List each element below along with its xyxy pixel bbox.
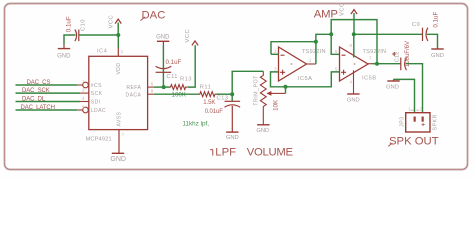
VCC symbol AMP: [340, 2, 358, 34]
svg-text:#CS: #CS: [91, 83, 102, 89]
pin 6 REFA stub: [148, 86, 154, 88]
svg-text:10K: 10K: [273, 99, 280, 111]
svg-text:GND: GND: [431, 53, 444, 59]
node D output junction: [375, 62, 379, 66]
node REFA junction: [162, 85, 166, 89]
wire wiper node to IC5A +in: [271, 72, 286, 87]
wire DAC_CS: [16, 84, 78, 86]
IC5B V+ pin 8 stub: [353, 34, 355, 57]
svg-text:VCC: VCC: [340, 2, 346, 16]
ground under IC5B: [347, 94, 360, 104]
pin 3 stub: [80, 92, 89, 94]
svg-text:C12: C12: [395, 51, 401, 62]
VCC symbol at R13: [185, 29, 198, 46]
wire C13 to GND: [231, 106, 233, 132]
VCC symbol at IC4: [108, 15, 121, 35]
pin 8 DACA stub: [148, 93, 154, 95]
svg-text:0.1uF: 0.1uF: [166, 59, 182, 66]
svg-text:VCC: VCC: [185, 29, 191, 43]
svg-text:SPK OUT: SPK OUT: [389, 135, 439, 147]
svg-text:GND: GND: [226, 135, 239, 141]
node LPF junction: [230, 92, 234, 96]
svg-text:VOLUME: VOLUME: [247, 147, 294, 159]
svg-text:GND: GND: [256, 128, 269, 134]
trimpot wiper arrow: [266, 91, 285, 96]
IC4 box MCP4921: [89, 56, 148, 129]
svg-text:LDAC: LDAC: [91, 108, 106, 114]
ground under C9: [431, 49, 444, 59]
wire node B to node A: [316, 34, 331, 41]
wire node A to IC5B -in: [331, 34, 339, 54]
wire C10 to VCC node: [79, 34, 119, 36]
wire IC5A feedback: [271, 42, 316, 64]
wire DAC_DL: [16, 101, 81, 103]
wire C9 to GND: [427, 34, 438, 49]
wire DAC_LATCH: [16, 109, 78, 111]
svg-text:TS922IN: TS922IN: [363, 49, 387, 55]
wire C12 to JP3 pin2: [406, 64, 423, 113]
pin 1 VDD stub: [117, 48, 119, 56]
wire wiper to node: [285, 87, 287, 94]
IC5A out stub: [307, 63, 316, 65]
IC5B V- pin 4 stub to GND: [353, 70, 355, 94]
wire R13 to VCC: [188, 45, 195, 87]
svg-text:VDD: VDD: [116, 63, 122, 75]
wire IC5B out to C12: [377, 63, 401, 65]
wire wiper node to IC5B +in: [286, 72, 340, 87]
capacitor C9: [423, 28, 428, 41]
node A: [329, 32, 333, 36]
ground at JP3: [386, 79, 400, 90]
ground under pot: [256, 125, 269, 134]
ground under IC4: [110, 153, 126, 163]
JP3 pin numbers: [408, 107, 422, 112]
svg-text:GND: GND: [57, 53, 71, 59]
op-amp IC5A: [279, 47, 307, 81]
svg-text:C11: C11: [167, 74, 178, 80]
capacitor C11: [156, 66, 172, 72]
wire DACA to R11: [154, 93, 199, 95]
section label SPK OUT: [388, 135, 438, 147]
svg-text:AVSS: AVSS: [116, 111, 122, 126]
svg-text:0.1uF: 0.1uF: [66, 16, 73, 32]
IC5A -in stub: [271, 53, 279, 55]
section label DAC: [140, 9, 165, 21]
wire node to C11: [162, 69, 164, 87]
IC5B out stub: [368, 63, 373, 65]
pin 2 bubble: [77, 82, 88, 88]
svg-text:0.1uF: 0.1uF: [433, 12, 440, 28]
svg-text:GND: GND: [386, 85, 399, 91]
IC5B pin numbers: [335, 43, 372, 84]
node junction VCC/C10/VDD: [116, 33, 120, 37]
svg-text:IC5B: IC5B: [362, 75, 377, 81]
pin 5 bubble: [77, 107, 88, 113]
svg-text:C9: C9: [412, 22, 420, 28]
svg-text:REFA: REFA: [126, 85, 141, 91]
ground under C10: [57, 45, 71, 60]
wire node A to IC5B output loop: [331, 20, 377, 64]
svg-text:11khz lpf,: 11khz lpf,: [183, 121, 210, 128]
wire VCC rail to C9: [354, 33, 423, 35]
svg-text:C10: C10: [81, 19, 87, 31]
capacitor C13: [225, 101, 241, 107]
svg-text:0.01uF: 0.01uF: [205, 109, 224, 115]
IC5A pin numbers: [274, 49, 312, 71]
node wiper junction: [284, 85, 288, 89]
wire R11 to node: [217, 93, 233, 95]
capacitor C12 polarized: [392, 52, 406, 70]
wire C10 to GND: [64, 35, 76, 45]
svg-text:TS922IN: TS922IN: [302, 49, 326, 55]
section label LPF: [210, 147, 236, 159]
wire DAC_SCK: [16, 92, 81, 94]
svg-text:MCP4921: MCP4921: [86, 136, 112, 142]
connector JP3: [406, 110, 430, 132]
svg-text:SCK: SCK: [91, 91, 103, 97]
pin 4 stub: [80, 101, 89, 103]
frame border: [5, 4, 468, 170]
wire node to trim pot: [232, 71, 263, 94]
svg-text:R11: R11: [200, 85, 211, 91]
svg-text:TRIM_POT: TRIM_POT: [253, 75, 259, 106]
node C VCC rail: [352, 32, 356, 36]
wire node to C13: [231, 94, 233, 101]
svg-text:VCC: VCC: [108, 15, 114, 29]
node B feedback: [314, 40, 318, 44]
pin 7 AVSS stub: [118, 130, 120, 154]
svg-text:DACA: DACA: [126, 92, 142, 98]
resistor R11: [198, 92, 217, 97]
ground above C11: [156, 34, 170, 45]
wire JP3 pin1 to GND: [394, 79, 415, 112]
svg-text:GND: GND: [156, 34, 170, 40]
svg-text:C13: C13: [217, 96, 229, 102]
resistor R13: [169, 85, 188, 90]
wire C11 to GND: [162, 46, 164, 69]
trimpot TRIM_POT 10K: [260, 71, 266, 125]
capacitor C10: [75, 30, 79, 42]
svg-text:IC5A: IC5A: [298, 76, 313, 82]
wire VDD: [117, 35, 119, 48]
wire REFA to node: [154, 86, 170, 88]
svg-text:SDI: SDI: [91, 100, 101, 106]
svg-text:R13: R13: [180, 76, 192, 82]
svg-text:1.5K: 1.5K: [203, 100, 215, 106]
svg-text:JP3: JP3: [400, 117, 406, 128]
svg-text:DAC: DAC: [142, 9, 166, 21]
svg-text:SPKR: SPKR: [432, 114, 438, 130]
svg-text:IC4: IC4: [97, 49, 108, 55]
op-amp IC5B: [340, 47, 369, 81]
svg-text:LPF: LPF: [215, 147, 236, 159]
svg-text:AMP: AMP: [314, 8, 338, 20]
svg-text:GND: GND: [110, 156, 126, 163]
ground under C13: [226, 132, 239, 141]
svg-text:GND: GND: [347, 98, 360, 104]
